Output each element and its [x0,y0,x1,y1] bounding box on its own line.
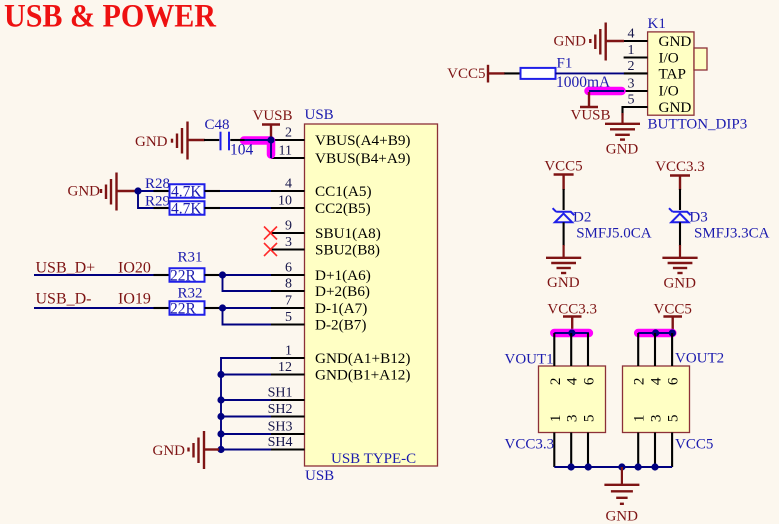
highlighted net (magenta) VOUT2 top bus [638,329,672,338]
svg-text:SH3: SH3 [268,419,293,434]
svg-text:3: 3 [285,235,292,250]
svg-text:GND: GND [547,275,580,291]
svg-text:1: 1 [285,344,292,359]
svg-text:GND: GND [663,275,696,291]
svg-text:GND: GND [606,142,639,158]
svg-text:USB_D+: USB_D+ [36,260,96,277]
wire VUSB to K1 pin 3 [589,90,624,92]
net label USB_D- and port IO19 [36,291,151,308]
wire D3 to GND [679,222,681,246]
junction at pin 2 / VUSB [267,136,274,143]
USB pin 4 CC1(A5) [271,177,372,200]
USB pin SH2 [268,402,305,417]
ground GND (left-facing) at shield bus [189,431,220,469]
svg-text:11: 11 [279,144,292,159]
svg-text:D+1(A6): D+1(A6) [315,267,371,284]
svg-text:VBUS(A4+B9): VBUS(A4+B9) [315,132,410,149]
svg-text:R32: R32 [178,286,203,302]
junction at R32 output [219,304,226,311]
svg-text:R29: R29 [145,194,170,210]
wire R29 to pin 10 [220,207,271,209]
svg-text:2: 2 [285,126,292,141]
svg-text:GND: GND [554,34,587,50]
ground GND (left-facing) at K1 pin 4 [590,23,624,61]
wire R31 to pin 6 [220,274,271,276]
svg-text:10: 10 [278,194,292,209]
svg-text:5: 5 [665,415,682,423]
junctions on VOUT2 top bus [652,329,676,336]
USB pin 5 D-2(B7) [271,310,367,333]
svg-text:1: 1 [628,43,635,58]
svg-text:IO19: IO19 [118,291,151,308]
svg-text:4: 4 [628,27,635,42]
svg-text:GND(B1+A12): GND(B1+A12) [315,367,410,384]
svg-text:SBU1(A8): SBU1(A8) [315,225,381,242]
svg-text:4: 4 [285,177,292,192]
wire VOUT2 top bus [638,332,672,334]
svg-text:USB & POWER: USB & POWER [4,0,217,35]
svg-text:USB: USB [305,107,334,123]
svg-text:SH2: SH2 [268,402,293,417]
USB pin SH3 [268,419,305,434]
switch K1 BUTTON_DIP3 body [648,16,748,133]
svg-text:1: 1 [547,415,564,423]
svg-text:7: 7 [285,294,292,309]
power port VCC5 above D2 [544,159,582,190]
svg-text:SMFJ5.0CA: SMFJ5.0CA [576,226,652,242]
svg-text:VCC5: VCC5 [544,159,582,175]
svg-text:5: 5 [285,310,292,325]
wire R32 to pin 7 [220,307,271,309]
svg-text:4.7K: 4.7K [171,183,202,200]
svg-text:VOUT1: VOUT1 [505,352,554,368]
resistor R29 4.7K [145,194,220,218]
USB pin 12 GND(B1+A12) [271,360,411,383]
capacitor C48 [205,117,254,159]
ground GND (left-facing) at C48 [172,122,205,160]
svg-text:IO20: IO20 [118,260,151,277]
wire R28 to pin 4 [220,190,271,192]
svg-text:12: 12 [278,360,292,375]
connector USB (USB TYPE-C) body [305,107,438,484]
highlighted net (magenta) VOUT1 top bus [554,329,589,338]
svg-text:GND: GND [659,33,692,50]
svg-text:8: 8 [285,277,292,292]
svg-text:CC2(B5): CC2(B5) [315,200,371,217]
svg-text:USB TYPE-C: USB TYPE-C [331,451,416,467]
svg-text:GND: GND [135,134,168,150]
net label USB_D+ and port IO20 [36,260,151,277]
VOUT2 top pins 2,4,6 [631,333,682,385]
junction on VOUT1 top bus [568,329,575,336]
K1 pin 5 [623,93,648,116]
svg-text:VCC5: VCC5 [447,66,485,82]
junction dots on GND bus [217,371,224,453]
svg-text:SMFJ3.3CA: SMFJ3.3CA [694,226,770,242]
VOUT1 top pins 2,4,6 [547,333,598,385]
power port VCC5 at F1 [447,65,505,83]
wire branch junction to pin 8 [223,275,272,291]
svg-text:3: 3 [648,415,665,423]
header VOUT1 body [505,352,606,433]
svg-text:TAP: TAP [659,65,686,82]
highlighted net VUSB (magenta) at K1 pin 3 [589,87,622,96]
wire VOUT bottom bus [554,466,672,468]
K1 pin 4 [624,27,648,42]
svg-text:1: 1 [631,415,648,423]
ground GND (earth) at K1 pin 5 [605,113,640,140]
svg-text:I/O: I/O [659,83,679,100]
wire D2 to GND [563,222,565,246]
no-connect X on pin 3 [264,243,277,256]
svg-text:D-1(A7): D-1(A7) [315,300,367,317]
svg-text:3: 3 [564,415,581,423]
USB pin 7 D-1(A7) [271,294,368,317]
header VOUT2 body [623,351,725,433]
K1 pin 3 [624,77,648,92]
svg-text:R28: R28 [145,176,170,192]
svg-text:4.7K: 4.7K [171,200,202,217]
power port VUSB above junction [253,108,293,138]
wire C48 to junction [245,139,272,141]
svg-text:4: 4 [564,377,581,385]
svg-text:VBUS(B4+A9): VBUS(B4+A9) [315,150,410,167]
svg-text:GND(A1+B12): GND(A1+B12) [315,350,410,367]
svg-text:6: 6 [285,261,292,276]
svg-text:USB_D-: USB_D- [36,291,92,308]
wire USB_D- to R32 [34,307,154,309]
ground GND (left-facing) at R28/R29 [101,173,137,211]
wire VCC3.3 to D3 [679,189,681,210]
svg-text:5: 5 [628,93,635,108]
wire F1 to K1 pin 2 [556,72,625,74]
power port VCC5 above VOUT2 [654,301,692,331]
ground GND (earth) at VOUT bus [604,467,639,504]
svg-text:C48: C48 [205,117,230,133]
svg-text:3: 3 [628,77,635,92]
K1 pin 2 [624,59,648,74]
svg-text:9: 9 [285,219,292,234]
wire junction down to pin 11 [270,140,272,158]
svg-text:6: 6 [581,377,598,385]
VOUT2 bottom pins 1,3,5 [631,415,682,467]
svg-text:GND: GND [605,509,638,524]
USB pin 9 SBU1(A8) [271,219,381,242]
USB pin 3 SBU2(B8) [271,235,380,258]
svg-text:4: 4 [648,377,665,385]
resistor R32 22R [154,286,221,318]
svg-text:VCC5: VCC5 [675,437,713,453]
svg-text:VCC3.3: VCC3.3 [655,159,705,175]
svg-text:SBU2(B8): SBU2(B8) [315,242,380,259]
svg-text:22R: 22R [170,300,197,317]
USB pin SH1 [268,385,305,400]
wire junction to R28 [137,190,154,192]
diode D3 SMFJ3.3CA [669,208,770,241]
svg-text:VOUT2: VOUT2 [675,351,724,367]
USB pin SH4 [268,435,305,450]
svg-text:VCC3.3: VCC3.3 [547,301,597,317]
resistor R31 22R [154,250,221,285]
fuse F1 1000mA [504,56,611,92]
svg-text:BUTTON_DIP3: BUTTON_DIP3 [648,117,748,133]
svg-text:22R: 22R [170,267,197,284]
svg-text:VCC3.3: VCC3.3 [505,437,555,453]
svg-text:2: 2 [628,59,635,74]
USB pin 1 GND(A1+B12) [271,344,411,367]
no-connect X on pin 9 [264,227,277,240]
wire junction down to R29 row [138,191,154,208]
svg-text:F1: F1 [557,56,573,72]
svg-text:GND: GND [153,443,186,459]
svg-text:6: 6 [665,377,682,385]
svg-text:2: 2 [631,378,648,386]
VOUT1 bottom pins 1,3,5 [547,415,598,467]
diode D2 SMFJ5.0CA [553,208,652,241]
wire branch junction to pin 5 [223,308,272,325]
wire USB_D+ to R31 [34,274,154,276]
power port VCC3.3 above VOUT1 [547,301,597,331]
svg-text:5: 5 [581,415,598,423]
ground GND (earth) at D3 [662,245,697,273]
wire GND bus to pins 1,12,SH1-SH4 [221,358,271,450]
svg-text:VUSB: VUSB [571,108,611,124]
power port VUSB below K1 pin 3 [571,92,611,124]
wire GND to C48 [204,139,219,141]
svg-text:CC1(A5): CC1(A5) [315,183,372,200]
svg-text:I/O: I/O [659,50,679,67]
svg-text:GND: GND [659,99,692,116]
svg-text:SH4: SH4 [268,435,293,450]
svg-text:D-2(B7): D-2(B7) [315,317,366,334]
wire VCC5 to D2 [563,189,565,210]
svg-text:VUSB: VUSB [253,108,293,124]
power port VCC3.3 above D3 [655,159,705,190]
svg-text:GND: GND [68,184,101,200]
wire VOUT1 top bus [554,332,589,334]
svg-text:R31: R31 [178,250,203,266]
USB pin 6 D+1(A6) [271,261,371,284]
svg-text:D2: D2 [573,210,591,226]
highlighted net VUSB (magenta) at C48/pin2 [244,141,271,155]
USB pin 11 VBUS(B4+A9) [271,144,410,167]
svg-text:D3: D3 [689,210,707,226]
svg-text:SH1: SH1 [268,385,293,400]
junction at R31 output [219,271,226,278]
ground GND (earth) at D2 [546,245,581,273]
svg-text:VCC5: VCC5 [654,301,692,317]
svg-text:2: 2 [547,378,564,386]
USB pin 8 D+2(B6) [271,277,370,300]
svg-text:K1: K1 [648,16,666,32]
USB pin 2 VBUS(A4+B9) [271,126,411,149]
junction at R28/R29 GND [134,187,141,194]
resistor R28 4.7K [145,176,220,200]
junctions on VOUT bottom bus [568,463,659,470]
USB pin 10 CC2(B5) [271,194,371,217]
K1 pin 1 [624,43,648,58]
svg-text:104: 104 [230,142,254,159]
svg-text:USB: USB [305,468,334,484]
svg-text:D+2(B6): D+2(B6) [315,283,370,300]
